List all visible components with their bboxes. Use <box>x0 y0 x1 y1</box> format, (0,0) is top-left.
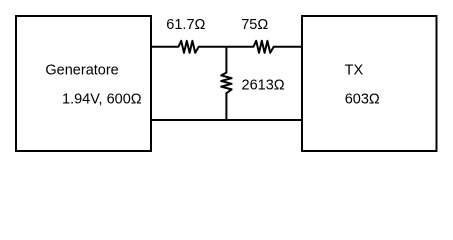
svg-text:Generatore: Generatore <box>45 63 118 79</box>
svg-text:61.7Ω: 61.7Ω <box>166 17 205 33</box>
svg-text:2613Ω: 2613Ω <box>242 77 285 93</box>
svg-text:603Ω: 603Ω <box>345 92 380 108</box>
svg-text:1.94V, 600Ω: 1.94V, 600Ω <box>62 92 142 108</box>
svg-text:TX: TX <box>345 63 364 79</box>
svg-text:75Ω: 75Ω <box>241 17 268 33</box>
